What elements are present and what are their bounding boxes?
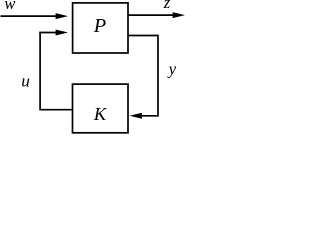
wire u segment: vertical up left side: [39, 32, 41, 111]
wire y segment: vertical down right side: [157, 35, 159, 117]
wire u segment: K left edge to corner: [40, 109, 72, 111]
svg-text:P: P: [93, 15, 106, 37]
arrowhead w into P: [56, 13, 68, 19]
arrowhead u into P: [56, 30, 68, 36]
arrowhead z: [173, 12, 185, 18]
block K (controller): [73, 84, 129, 133]
arrowhead y into K: [130, 113, 142, 119]
svg-text:w: w: [4, 0, 15, 13]
svg-text:y: y: [167, 59, 177, 78]
wire y segment: horizontal into K: [140, 115, 158, 117]
svg-text:K: K: [93, 104, 108, 124]
svg-text:u: u: [21, 71, 30, 90]
wire u segment: horizontal into P: [39, 32, 58, 34]
block P (generalized plant): [73, 3, 128, 53]
wire z (performance output of P): [128, 14, 175, 16]
wire w (exogenous input into P): [1, 15, 59, 17]
wire y segment: P right edge to corner: [128, 35, 158, 37]
svg-text:z: z: [163, 0, 171, 12]
